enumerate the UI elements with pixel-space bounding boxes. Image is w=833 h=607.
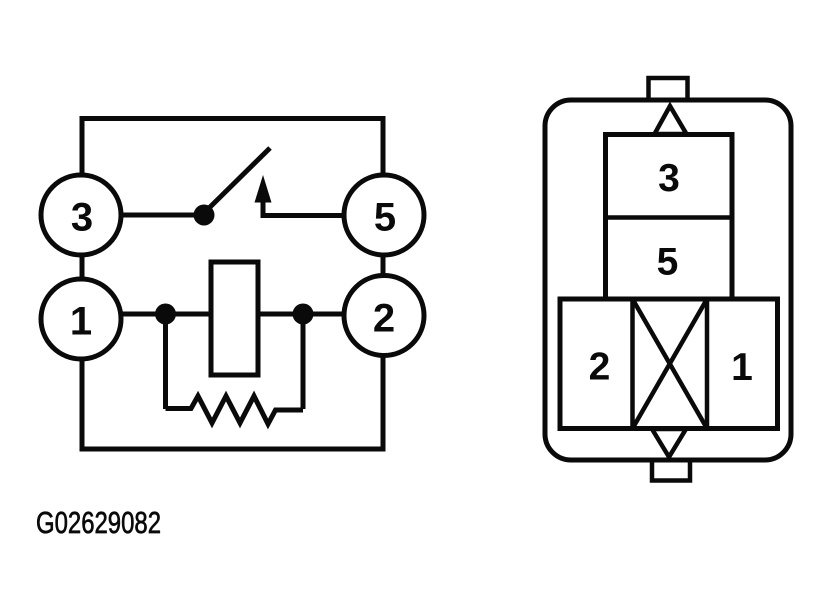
- wire contact row (pin 3 to switch): [81, 213, 204, 218]
- coil L1: [211, 262, 258, 375]
- terminal 5: [344, 175, 424, 255]
- keyway cross diagonal 1: [633, 299, 708, 429]
- svg-text:3: 3: [658, 157, 680, 200]
- switch arrowhead: [255, 175, 272, 203]
- switch pivot dot: [194, 205, 215, 226]
- terminal 1: [41, 279, 121, 359]
- svg-text:1: 1: [70, 300, 92, 344]
- wire coil row (pin 1 to pin 2): [81, 312, 384, 317]
- wire left drop to resistor: [163, 314, 168, 409]
- terminal 2: [344, 276, 424, 356]
- divider right of x: [705, 299, 710, 429]
- svg-text:1: 1: [731, 346, 753, 389]
- svg-text:3: 3: [71, 196, 93, 240]
- divider 3/5: [606, 215, 733, 220]
- cavity block 3/5: [606, 135, 733, 301]
- switch contact blade: [205, 148, 270, 212]
- wire right drop to resistor: [301, 314, 306, 409]
- relay schematic K1: [81, 119, 384, 450]
- bottom mounting tab: [652, 460, 690, 481]
- divider left of x: [630, 299, 635, 429]
- top mounting tab: [649, 78, 688, 100]
- svg-text:2: 2: [589, 346, 611, 389]
- terminal 3: [41, 175, 121, 255]
- svg-text:G02629082: G02629082: [36, 505, 161, 540]
- svg-text:5: 5: [657, 241, 679, 284]
- resistor R1: [166, 396, 304, 424]
- junction dot right: [293, 304, 314, 325]
- keyway cross diagonal 2: [633, 299, 708, 429]
- bottom keying triangle: [652, 429, 686, 457]
- top keying triangle: [655, 106, 687, 134]
- svg-text:2: 2: [373, 297, 395, 341]
- wire outer loop: [82, 119, 383, 450]
- relay body outline: [545, 100, 791, 460]
- cavity block 2/x/1: [560, 299, 778, 429]
- wire switch to pin 5: [263, 201, 384, 216]
- svg-text:5: 5: [374, 196, 396, 240]
- junction dot left: [155, 304, 176, 325]
